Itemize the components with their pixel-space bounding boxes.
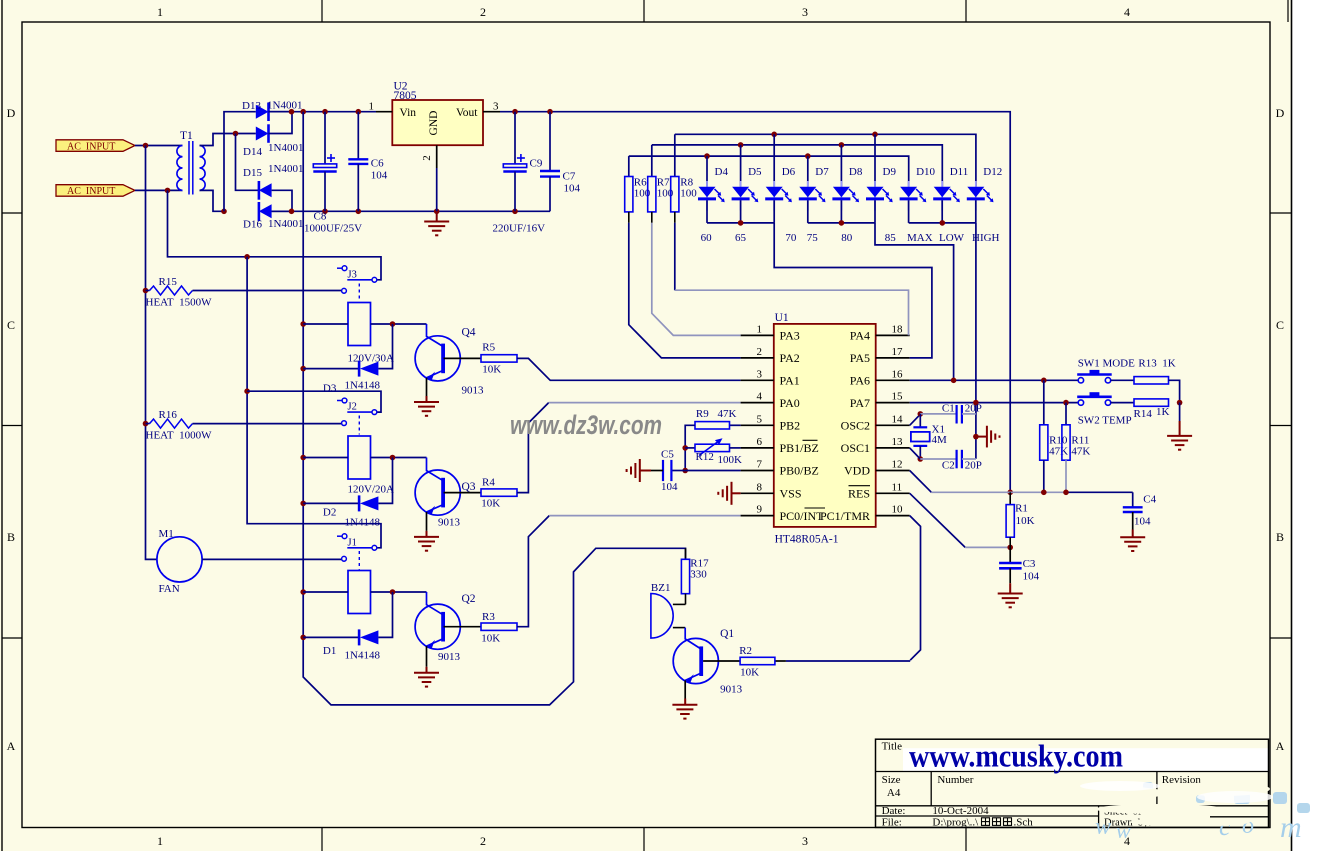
junction AC2 rail <box>165 188 171 194</box>
svg-text:120V/30A: 120V/30A <box>348 353 395 365</box>
svg-text:10K: 10K <box>481 498 500 510</box>
svg-text:D: D <box>7 106 16 120</box>
svg-text:C8: C8 <box>314 211 327 223</box>
eraser smudges <box>1015 776 1270 827</box>
svg-text:Q3: Q3 <box>462 481 476 493</box>
wire -rail <box>272 210 550 212</box>
U1 overline INT pin9 <box>805 507 826 509</box>
svg-text:9013: 9013 <box>438 651 461 663</box>
capacitor C7 104 <box>549 112 551 171</box>
svg-text:10: 10 <box>892 504 904 516</box>
junction DC+ coil J1 <box>300 589 306 595</box>
U1 pin 17 PA5 <box>876 357 910 359</box>
svg-text:Q1: Q1 <box>720 628 734 640</box>
svg-text:9013: 9013 <box>720 683 743 695</box>
U1 pin 16 PA6 <box>876 379 910 381</box>
wire AC neutral rail <box>146 146 157 560</box>
junction rail B D5 <box>738 142 744 148</box>
svg-text:C9: C9 <box>530 158 543 170</box>
svg-text:PC0/INT: PC0/INT <box>780 509 825 523</box>
LED D6 <box>773 181 775 211</box>
svg-text:9013: 9013 <box>438 517 461 529</box>
wire D15 anode down to -rail <box>272 190 292 211</box>
svg-text:D12: D12 <box>983 166 1002 178</box>
junction rail C D4 <box>704 153 710 159</box>
junction -rail a <box>289 209 295 215</box>
capacitor C4 104 <box>1132 492 1134 507</box>
svg-text:PA6: PA6 <box>850 374 870 388</box>
U1 pin 2 PA2 <box>741 357 774 359</box>
svg-text:2: 2 <box>757 346 763 358</box>
wire LED anode drops <box>706 156 708 186</box>
svg-text:A: A <box>7 739 16 753</box>
relay contact J3 <box>337 267 342 269</box>
junction R1 bottom <box>1007 545 1013 551</box>
svg-text:104: 104 <box>564 183 581 195</box>
svg-text:J3: J3 <box>348 269 357 280</box>
relay contact J2 <box>337 400 342 402</box>
wire secondary bottom to TS_bot <box>200 190 225 211</box>
wire R8 to pin18 <box>674 223 676 290</box>
svg-text:Vin: Vin <box>400 107 417 119</box>
svg-text:PB1/BZ: PB1/BZ <box>780 441 819 455</box>
svg-text:SW1 MODE: SW1 MODE <box>1078 358 1135 370</box>
svg-text:4: 4 <box>1124 5 1130 19</box>
svg-text:D2: D2 <box>323 507 336 519</box>
svg-text:D5: D5 <box>748 166 762 178</box>
U2 pin 1 <box>376 111 392 113</box>
title block row line 2 <box>876 805 1269 807</box>
wire LED rail A <box>675 134 976 186</box>
svg-text:D8: D8 <box>849 166 863 178</box>
LED D10 <box>908 181 910 211</box>
mech link J1 <box>358 551 360 570</box>
junction TS_bot <box>221 209 227 215</box>
resistor R10 47K <box>1043 380 1045 425</box>
svg-text:104: 104 <box>371 170 388 182</box>
LED D9 <box>874 181 876 211</box>
svg-text:C3: C3 <box>1023 558 1036 570</box>
wire R9 left column <box>685 425 695 470</box>
svg-text:PA1: PA1 <box>780 374 800 388</box>
switch SW2 TEMP <box>1078 400 1083 405</box>
junction bus2 <box>839 220 845 226</box>
frame right ruler ticks <box>1270 212 1292 214</box>
svg-text:100K: 100K <box>718 454 743 466</box>
wire coil J2 right to Q3 collector <box>371 457 427 459</box>
resistor R3 10K <box>481 623 517 630</box>
svg-text:104: 104 <box>1134 516 1151 528</box>
junction -rail C6 <box>356 209 362 215</box>
svg-text:17: 17 <box>892 346 904 358</box>
svg-text:HT48R05A-1: HT48R05A-1 <box>775 534 839 546</box>
svg-text:w: w <box>1116 818 1131 843</box>
junction pin16 R10 <box>1041 378 1047 384</box>
LED D7 <box>807 181 809 211</box>
ground at U2 pin2 <box>436 211 438 221</box>
svg-text:Q4: Q4 <box>462 327 476 339</box>
wire feed column <box>247 257 381 548</box>
svg-text:D: D <box>1276 106 1285 120</box>
wire coil J3 right to Q4 collector <box>371 323 427 325</box>
svg-text:13: 13 <box>892 436 904 448</box>
junction +rail C6 <box>356 109 362 115</box>
relay coil J2 120V/20A <box>348 436 371 479</box>
svg-text:SW2 TEMP: SW2 TEMP <box>1078 414 1132 426</box>
frame left ruler ticks <box>2 212 22 214</box>
svg-text:D11: D11 <box>950 166 969 178</box>
port AC INPUT 2 <box>56 185 135 197</box>
U1 pin 14 OSC2 <box>876 424 910 426</box>
wire R3 to U1 pin9 <box>517 516 549 627</box>
junction R13 R14 gnd <box>1177 400 1183 406</box>
U1 pin 13 OSC1 <box>876 447 910 449</box>
junction X1 bottom <box>918 456 924 462</box>
resistor R17 330 <box>685 548 687 559</box>
svg-text:7: 7 <box>757 459 763 471</box>
svg-text:12: 12 <box>892 459 903 471</box>
U1 overline RES pin11 <box>849 485 871 487</box>
resistor R2 10K <box>740 657 775 664</box>
svg-text:C5: C5 <box>661 448 674 460</box>
svg-text:C4: C4 <box>1143 494 1156 506</box>
svg-text:GND: GND <box>428 111 440 136</box>
svg-text:C: C <box>7 318 15 332</box>
wire secondary top to bridge node TS_top <box>200 134 256 146</box>
U1 pin 8 VSS <box>741 492 774 494</box>
svg-text:1: 1 <box>369 101 375 113</box>
wire coil J3 left <box>303 323 348 325</box>
wire coil J1 left <box>303 591 348 593</box>
resistor R9 47K <box>730 424 741 426</box>
junction -rail C9 <box>512 209 518 215</box>
junction TS_top <box>233 131 239 137</box>
svg-text:www.dz3w.com: www.dz3w.com <box>510 410 662 440</box>
svg-text:PA4: PA4 <box>850 329 870 343</box>
junction DC+ coil J2 <box>300 455 306 461</box>
U1 overline BZ pin6 <box>803 439 818 441</box>
svg-text:R3: R3 <box>482 611 495 623</box>
svg-text:1: 1 <box>157 5 163 19</box>
wire VDD net <box>910 471 932 493</box>
wire bus3 return to pin15 <box>975 223 977 459</box>
wire AC1 to transformer <box>135 145 183 147</box>
svg-text:D15: D15 <box>243 167 262 179</box>
ic U1 HT48R05A-1 <box>774 324 876 527</box>
svg-text:A: A <box>1276 739 1285 753</box>
wire pin11 RES net <box>910 493 966 547</box>
svg-text:A4: A4 <box>887 787 901 799</box>
svg-text:Date:: Date: <box>882 805 906 817</box>
svg-text:BZ1: BZ1 <box>651 582 671 594</box>
crystal X1 4M <box>910 414 921 425</box>
svg-text:R5: R5 <box>482 342 495 354</box>
svg-text:PA5: PA5 <box>850 351 870 365</box>
svg-text:104: 104 <box>661 481 678 493</box>
resistor R6 100 <box>628 156 630 176</box>
junction DC+ D1 <box>300 635 306 641</box>
diode D13 1N4001 <box>256 105 269 119</box>
svg-text:D7: D7 <box>815 166 829 178</box>
svg-text:VSS: VSS <box>780 487 802 501</box>
junction rail A D6 <box>771 132 777 138</box>
svg-text:D6: D6 <box>782 166 796 178</box>
transformer T1 <box>177 146 183 191</box>
svg-text:1K: 1K <box>1156 406 1170 418</box>
svg-text:B: B <box>7 530 15 544</box>
svg-text:3: 3 <box>802 5 808 19</box>
wire D16 anode to -rail <box>272 210 292 212</box>
svg-text:Title: Title <box>882 741 903 753</box>
resistor R16 HEAT 1000W <box>146 423 150 425</box>
svg-text:D9: D9 <box>883 166 897 178</box>
svg-text:LOW: LOW <box>939 232 965 244</box>
U1 pin 6 PB1/BZ <box>741 447 774 449</box>
capacitor C1 20P <box>955 405 957 424</box>
U1 pin 9 PC0/INT <box>741 515 774 517</box>
svg-text:R16: R16 <box>159 409 178 421</box>
svg-text:Q2: Q2 <box>462 593 476 605</box>
relay coil J3 120V/30A <box>348 303 371 346</box>
svg-text:1: 1 <box>157 834 163 848</box>
svg-text:R13 1K: R13 1K <box>1138 358 1175 370</box>
wire Q1 base to R2 <box>703 660 740 662</box>
title block sheet cell line <box>1210 816 1269 818</box>
svg-text:R9: R9 <box>696 408 709 420</box>
svg-text:MAX: MAX <box>907 232 933 244</box>
svg-text:R12: R12 <box>696 451 714 463</box>
svg-text:8: 8 <box>757 481 763 493</box>
wire pin15 net to SW2 <box>910 402 1079 404</box>
title block white band <box>903 748 1269 771</box>
svg-text:U1: U1 <box>775 312 789 324</box>
svg-text:100: 100 <box>680 188 697 200</box>
wire +rail <box>269 111 377 113</box>
U1 pin 5 PB2 <box>741 424 774 426</box>
svg-text:RES: RES <box>848 487 870 501</box>
junction rail C D7 <box>805 153 811 159</box>
junction AC1 rail <box>143 143 149 149</box>
U2 pin 2 <box>436 145 438 168</box>
ground at C3 <box>1009 583 1011 593</box>
svg-text:C1: C1 <box>942 402 955 414</box>
ground at Q1 emitter <box>684 680 686 698</box>
transistor Q2 9013 <box>415 604 460 649</box>
wire R6 to pin2 <box>629 223 741 358</box>
svg-text:1000UF/25V: 1000UF/25V <box>304 223 362 235</box>
svg-text:3: 3 <box>493 101 499 113</box>
svg-text:47K: 47K <box>1049 446 1068 458</box>
svg-text:47K: 47K <box>718 408 737 420</box>
svg-text:D13: D13 <box>242 100 261 112</box>
svg-text:4M: 4M <box>932 434 948 446</box>
wire J2 feed <box>247 391 381 412</box>
junction bus1 <box>738 220 744 226</box>
wire DC+ rail <box>303 112 685 705</box>
svg-text:.Sch: .Sch <box>1014 817 1034 829</box>
diode D1 1N4148 <box>303 636 358 638</box>
wire TS_bot up to D13 anode <box>224 112 256 212</box>
svg-text:J2: J2 <box>348 402 357 413</box>
svg-text:PA2: PA2 <box>780 351 800 365</box>
svg-text:o: o <box>1242 813 1254 839</box>
wire R13 to ground node <box>1169 380 1180 402</box>
junction VDD R11 <box>1063 490 1069 496</box>
junction pin15 bus3 <box>973 400 979 406</box>
junction coil J1 / D1 <box>390 589 396 595</box>
transistor Q4 9013 <box>415 336 460 381</box>
junction pin15 R11 <box>1063 400 1069 406</box>
svg-text:220UF/16V: 220UF/16V <box>493 223 546 235</box>
wire bus1 return to pin17 <box>774 223 932 358</box>
svg-text:9: 9 <box>757 504 763 516</box>
svg-text:R4: R4 <box>482 477 495 489</box>
svg-text:10K: 10K <box>482 364 501 376</box>
svg-text:18: 18 <box>892 323 904 335</box>
capacitor C8 1000UF/25V <box>324 112 326 164</box>
ground at oscillator <box>976 436 987 438</box>
U1 pin 10 PC1/TMR <box>876 515 910 517</box>
junction 5V C7 <box>547 109 553 115</box>
svg-text:AC INPUT: AC INPUT <box>67 186 115 197</box>
svg-text:OSC2: OSC2 <box>841 419 870 433</box>
motor M1 FAN <box>157 537 202 582</box>
resistor R5 10K <box>481 355 517 362</box>
junction pin7 node <box>682 468 688 474</box>
capacitor C9 220UF/16V <box>514 112 516 164</box>
diode D15 1N4001 <box>259 183 272 197</box>
svg-text:PC1/TMR: PC1/TMR <box>820 509 870 523</box>
svg-text:70: 70 <box>785 232 797 244</box>
diode D14 1N4001 <box>256 127 269 141</box>
U1 pin 11 RES <box>876 492 910 494</box>
junction bus3 <box>940 220 946 226</box>
wire Q2 base to R3 <box>444 626 481 628</box>
svg-text:80: 80 <box>841 232 853 244</box>
U2 pin 3 <box>483 111 500 113</box>
svg-text:Size: Size <box>882 774 901 786</box>
junction neutral R16 <box>143 421 149 427</box>
svg-text:330: 330 <box>690 569 707 581</box>
junction -rail C8 <box>322 209 328 215</box>
wire LED cathode bus 3 <box>909 222 976 224</box>
svg-text:www.mcusky.com: www.mcusky.com <box>909 738 1123 774</box>
svg-text:File:: File: <box>882 817 902 829</box>
junction DC+ coil J3 <box>300 321 306 327</box>
svg-text:VDD: VDD <box>844 464 870 478</box>
wire bus2 return to pin16 <box>875 223 954 380</box>
svg-text:9013: 9013 <box>462 385 485 397</box>
ground at pin8 VSS <box>732 492 741 494</box>
wire LED cathode bus 2 <box>808 222 875 224</box>
ground at C5 <box>640 470 651 472</box>
svg-text:60: 60 <box>701 232 713 244</box>
svg-text:C2: C2 <box>942 460 955 472</box>
ground at Q2 emitter <box>426 646 428 667</box>
svg-text:M1: M1 <box>159 528 174 540</box>
svg-text:HEAT 1000W: HEAT 1000W <box>146 430 213 442</box>
ground at C4 <box>1132 530 1134 538</box>
svg-text:D16: D16 <box>243 219 262 231</box>
svg-text:R15: R15 <box>159 276 178 288</box>
buzzer BZ1 <box>651 594 673 639</box>
wire pin16 net to SW1 <box>910 379 1079 381</box>
title block divider sheet <box>1098 806 1100 828</box>
svg-text:11: 11 <box>892 481 903 493</box>
junction coil J3 / D3 <box>390 321 396 327</box>
svg-text:T1: T1 <box>180 130 193 142</box>
svg-text:D14: D14 <box>243 146 262 158</box>
ground at Q4 emitter <box>426 378 428 396</box>
wire 5V rail <box>500 112 1010 493</box>
wire coil J2 left <box>303 457 348 459</box>
svg-text:7805: 7805 <box>394 90 417 102</box>
wire AC2 to transformer <box>135 189 183 191</box>
svg-text:PB0/BZ: PB0/BZ <box>780 464 819 478</box>
junction -rail gnd <box>434 209 440 215</box>
svg-text:FAN: FAN <box>159 583 180 595</box>
U1 pin 3 PA1 <box>741 379 774 381</box>
U1 pin 7 PB0/BZ <box>741 470 774 472</box>
svg-text:10K: 10K <box>1016 515 1035 527</box>
junction DC+ D3 <box>300 366 306 372</box>
frame bottom ruler ticks <box>321 828 323 851</box>
svg-text:PA7: PA7 <box>850 396 870 410</box>
watermark fragments bottom right <box>1095 811 1302 844</box>
capacitor C3 104 <box>1009 547 1011 563</box>
svg-text:C: C <box>1276 318 1284 332</box>
wire LED cathode bus 1 <box>707 222 774 224</box>
capacitor C6 104 <box>357 112 359 160</box>
LED D5 <box>740 181 742 211</box>
wire TS_top down to D15 cathode <box>236 134 259 191</box>
resistor R14 1K <box>1134 399 1169 406</box>
junction rail B D8 <box>839 142 845 148</box>
regulator U2 7805 <box>392 100 483 145</box>
junction rail A D9 <box>872 132 878 138</box>
title block row line 3 <box>876 815 1099 817</box>
svg-text:104: 104 <box>1023 570 1040 582</box>
wire X1 bottom to pin13 <box>910 448 921 459</box>
resistor R13 1K <box>1134 377 1169 384</box>
wire LED rail C <box>629 156 909 186</box>
junction coil J2 / D2 <box>390 455 396 461</box>
wire pin10 to R2 <box>910 516 921 661</box>
svg-text:2: 2 <box>421 155 433 161</box>
svg-text:1: 1 <box>757 323 763 335</box>
switch SW1 MODE <box>1078 378 1083 383</box>
diode D16 1N4001 <box>259 204 272 218</box>
wire SW2 to R14 <box>1111 402 1134 404</box>
junction line feed <box>244 254 250 260</box>
ground at R13/R14 <box>1179 403 1181 421</box>
svg-text:2: 2 <box>480 5 486 19</box>
svg-text:1N4148: 1N4148 <box>345 517 381 529</box>
frame outer border <box>1 0 3 851</box>
svg-text:1N4148: 1N4148 <box>345 380 381 392</box>
svg-text:PA0: PA0 <box>780 396 800 410</box>
junction VDD R10 <box>1041 490 1047 496</box>
wire D13 cathode to +rail <box>269 111 292 113</box>
wire coil J1 right to Q2 collector <box>371 591 427 593</box>
svg-text:D3: D3 <box>323 383 337 395</box>
resistor R4 10K <box>481 489 517 496</box>
title block divider revision <box>1156 772 1158 806</box>
wire Q4 base to R5 <box>444 357 481 359</box>
svg-text:75: 75 <box>807 232 819 244</box>
LED D12 <box>975 181 977 211</box>
svg-text:1N4001: 1N4001 <box>268 218 303 230</box>
